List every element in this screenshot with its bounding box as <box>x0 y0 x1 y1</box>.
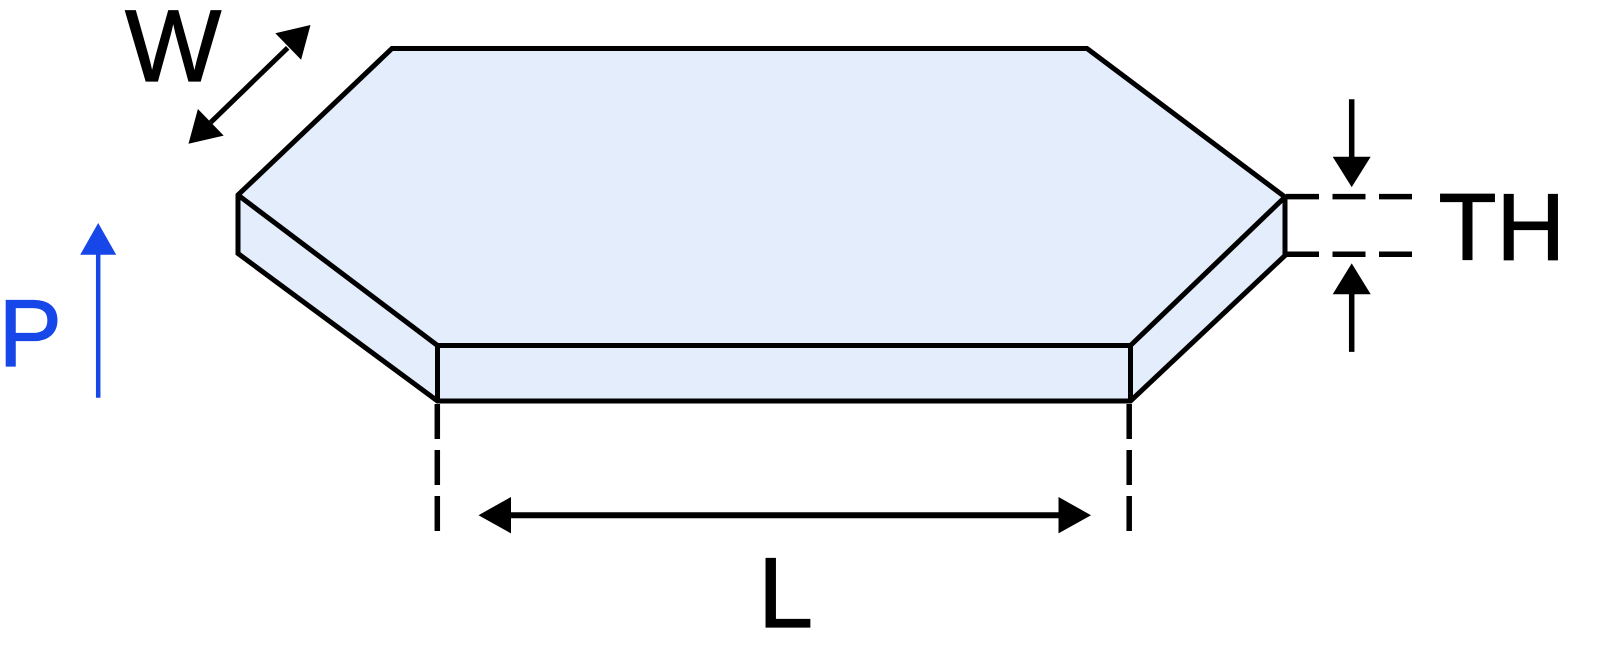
svg-text:P: P <box>0 281 62 387</box>
svg-text:L: L <box>758 537 813 648</box>
svg-text:W: W <box>125 0 221 103</box>
svg-text:TH: TH <box>1439 175 1566 281</box>
